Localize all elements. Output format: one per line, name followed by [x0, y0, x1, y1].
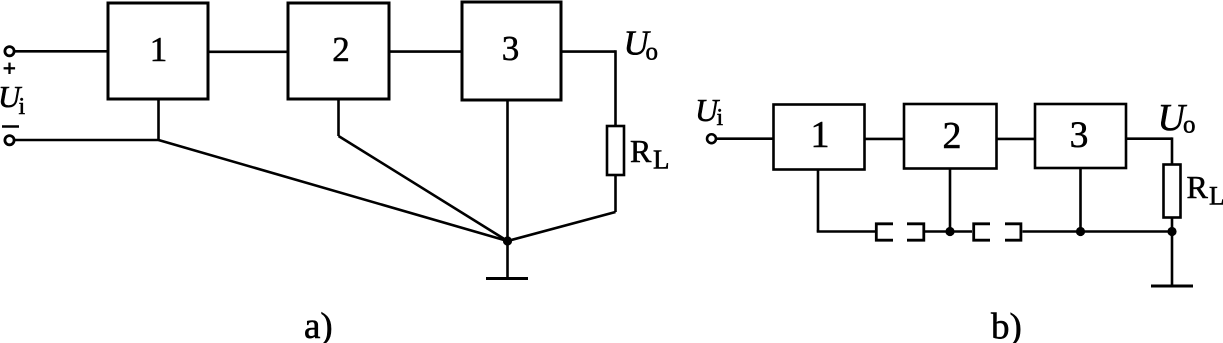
svg-text:b): b) [991, 307, 1022, 343]
svg-text:1: 1 [811, 114, 830, 156]
svg-text:i: i [717, 105, 724, 131]
svg-text:o: o [1183, 112, 1196, 139]
svg-text:3: 3 [1070, 115, 1089, 156]
svg-text:i: i [19, 94, 26, 120]
svg-text:2: 2 [943, 115, 962, 157]
svg-text:R: R [1187, 169, 1209, 205]
svg-text:L: L [1209, 182, 1223, 211]
svg-text:1: 1 [150, 30, 168, 69]
svg-text:2: 2 [332, 30, 350, 69]
svg-text:L: L [653, 145, 670, 175]
svg-text:o: o [646, 39, 659, 66]
svg-text:a): a) [304, 306, 333, 343]
svg-text:3: 3 [502, 29, 520, 68]
svg-text:R: R [630, 133, 652, 169]
